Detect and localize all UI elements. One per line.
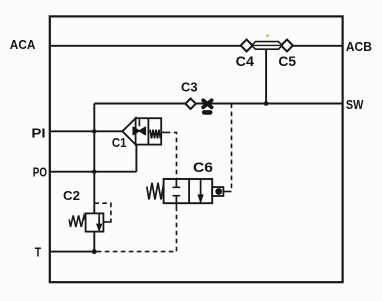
svg-text:PI: PI (31, 126, 45, 140)
svg-text:C3: C3 (181, 81, 198, 95)
svg-text:PO: PO (33, 166, 47, 180)
svg-text:SW: SW (346, 98, 364, 112)
svg-text:C1: C1 (112, 136, 127, 150)
svg-text:ACA: ACA (10, 38, 36, 52)
svg-text:C6: C6 (193, 160, 213, 175)
svg-text:C4: C4 (236, 54, 255, 69)
svg-text:ACB: ACB (346, 40, 372, 54)
svg-text:C2: C2 (63, 189, 80, 203)
svg-text:T: T (35, 246, 41, 260)
svg-text:C5: C5 (278, 54, 296, 69)
